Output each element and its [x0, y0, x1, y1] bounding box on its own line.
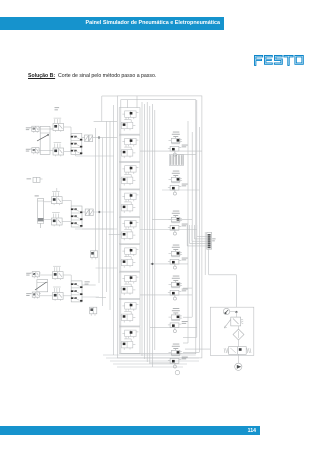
- flow control 2V4: [85, 209, 89, 216]
- filter: [233, 329, 244, 340]
- memory valve 1V3: [71, 133, 82, 154]
- control valve 1V2: [53, 148, 64, 155]
- group2 wires: [44, 201, 52, 203]
- cascade step module 8: [119, 300, 140, 327]
- manifold feed wires: [197, 236, 207, 238]
- distribution manifold: [207, 232, 212, 249]
- memory valve 3V3: [71, 281, 82, 302]
- limit valve 2S2: [90, 307, 97, 314]
- limit valve 1S1: [32, 126, 39, 131]
- limit valve 2S1: [90, 251, 97, 258]
- control valve 2V1: [52, 197, 63, 204]
- step pilot valve V4: [168, 245, 188, 270]
- FESTO logo: [254, 53, 305, 71]
- left bus horizontals: [102, 95, 118, 97]
- junction node row V4: [152, 263, 154, 265]
- cascade step module 7: [119, 272, 140, 299]
- caption: [28, 73, 156, 79]
- cascade step module 2: [119, 135, 140, 162]
- group1 wires: [39, 128, 53, 130]
- compressor symbol: [235, 363, 242, 370]
- control valve 3V1: [53, 272, 64, 279]
- shutoff valve 0V1: [229, 347, 247, 355]
- cascade bus verticals right of modules: [141, 102, 143, 356]
- right bus verticals: [187, 121, 189, 343]
- cascade bottom wrap lines: [103, 354, 196, 356]
- junction node group2: [98, 211, 100, 213]
- group3 wires: [40, 274, 53, 276]
- label 2A: [35, 195, 39, 196]
- row connector wires: [140, 150, 202, 152]
- footer bar: [0, 426, 260, 435]
- cylinder 3A body: [37, 280, 48, 292]
- manifold inlet verticals: [196, 225, 198, 237]
- cylinder 2A body: [38, 199, 44, 222]
- cascade step module 5: [119, 217, 140, 244]
- control valve 3V2: [53, 292, 64, 299]
- supply wire from manifold: [208, 249, 210, 275]
- cascade step module 6: [119, 245, 140, 272]
- wire 2S1 output: [96, 267, 118, 269]
- flow control 1V4: [85, 135, 89, 142]
- pressure regulator: [231, 317, 241, 326]
- left bus verticals: [95, 128, 97, 251]
- junction node group1: [98, 137, 100, 139]
- label near 2S1: [85, 280, 90, 283]
- junction on supply: [236, 311, 238, 313]
- valve V7 drain circle: [175, 370, 179, 374]
- control valve 2V2: [52, 218, 63, 225]
- cascade bus frame outer: [117, 96, 202, 358]
- regulator relief arrow: [224, 319, 231, 328]
- wire from valve V7 to supply: [185, 348, 211, 350]
- air service unit box: [210, 307, 254, 355]
- cascade step module 9: [119, 327, 140, 354]
- step pilot valve V7: [168, 344, 188, 369]
- cascade bus frame inner: [121, 100, 196, 354]
- cylinder 1A body: [40, 126, 50, 154]
- limit valve 3S1: [32, 272, 39, 277]
- cascade step module 1: [119, 108, 140, 135]
- limit valve 2S0: [33, 177, 40, 182]
- step pilot valve V3: [168, 211, 188, 236]
- cascade step module 3: [119, 163, 140, 190]
- chain top stub wires: [127, 100, 129, 108]
- right bus stubs: [183, 287, 192, 289]
- wire valve to compressor: [238, 354, 240, 363]
- control valve 1V1: [53, 124, 64, 131]
- label above 1V1: [55, 106, 60, 109]
- step pilot valve V1: [168, 132, 188, 157]
- cascade step module 4: [119, 190, 140, 217]
- muffler manifold under valve V1: [170, 155, 184, 166]
- memory valve 2V3: [71, 206, 82, 227]
- step pilot valve V5: [168, 276, 188, 301]
- wire 2S2 output: [96, 296, 106, 298]
- step pilot valve V6: [168, 308, 188, 333]
- limit valve 1S2: [32, 148, 39, 153]
- pressure gauge: [223, 308, 229, 314]
- header bar: [0, 17, 224, 30]
- limit valve 3S2: [32, 292, 39, 297]
- step pilot valve V2: [168, 171, 188, 196]
